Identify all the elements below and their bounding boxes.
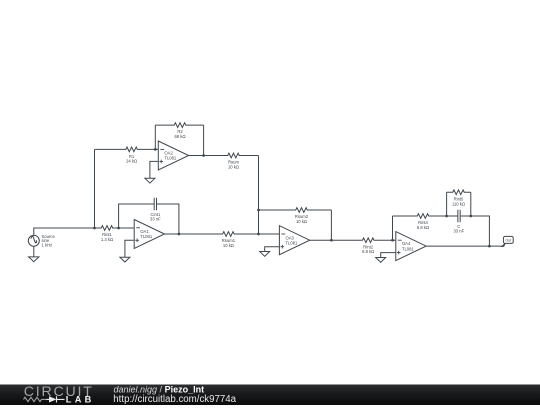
node Rint5 left [445, 215, 448, 218]
wire OA4 output run [426, 245, 502, 247]
svg-text:33 nF: 33 nF [150, 216, 161, 221]
svg-text:6.8 kΩ: 6.8 kΩ [417, 225, 429, 230]
voltage source V1 (Source sine 1 kHz) [28, 235, 39, 246]
wire Cint1 feedback right [157, 204, 179, 234]
node OA3 output junction [330, 239, 333, 242]
wire vertical branch up to R1 [94, 149, 96, 228]
svg-text:6.8 kΩ: 6.8 kΩ [362, 249, 374, 254]
svg-text:OA1: OA1 [140, 229, 149, 234]
ground below source [29, 257, 39, 262]
wire Rint5 left vertical [446, 192, 448, 216]
ground at OA3 [260, 252, 270, 257]
resistor R1 24k with wire [95, 147, 159, 152]
node input branch to R1 [93, 227, 96, 230]
resistor Rint2 6.8k on OA3 output run [310, 238, 396, 243]
logo zigzag [24, 397, 47, 401]
ground at OA1 [120, 257, 130, 262]
resistor Rint4 6.8k on feedback wire [393, 214, 458, 219]
svg-text:TL081: TL081 [402, 247, 415, 252]
capacitor Cint1 33nF [154, 198, 156, 210]
resistor Rsum1 10k on OA1 output run [165, 232, 280, 237]
resistor R2 68k on feedback wire [155, 123, 203, 128]
wire Rint5 right vertical [470, 192, 472, 216]
svg-text:TL081: TL081 [286, 241, 299, 246]
wire source bottom to ground [33, 246, 35, 257]
resistor Rint1 1.3k with input wire [95, 226, 135, 231]
resistor Rsum 10k on OA2 output run [189, 153, 259, 158]
capacitor C 33nF [458, 210, 460, 222]
node summing junction [257, 233, 260, 236]
wire OA2 feedback left vertical [154, 125, 156, 149]
svg-text:OA2: OA2 [164, 150, 173, 155]
node branch to Cint1 [117, 227, 120, 230]
wire OA4 feedback left vertical [392, 216, 394, 240]
node OA2 inverting input [154, 148, 157, 151]
resistor Rsum2 10k on feedback wire [259, 208, 332, 213]
ground at OA2 [145, 178, 155, 183]
svg-text:http://circuitlab.com/ck9774a: http://circuitlab.com/ck9774a [113, 394, 236, 405]
node OA1 output junction [178, 233, 181, 236]
svg-text:10 kΩ: 10 kΩ [223, 243, 234, 248]
wire OA1 noninverting to ground [125, 240, 134, 257]
op-amp OA4 TL081 [396, 232, 426, 261]
node OA4 inverting input [391, 239, 394, 242]
node Rint5 right [469, 215, 472, 218]
svg-text:1 kHz: 1 kHz [42, 243, 53, 248]
op-amp OA2 TL081 [158, 141, 188, 170]
node Rsum2 branch [257, 209, 260, 212]
node Out flag [503, 236, 513, 243]
svg-text:OA4: OA4 [402, 241, 411, 246]
node OA2 output junction [202, 154, 205, 157]
wire vertical down to summing node [258, 156, 260, 235]
ground at OA4 [376, 258, 386, 263]
svg-text:LAB: LAB [66, 395, 95, 405]
op-amp OA3 TL081 [279, 226, 309, 255]
wire Cint1 feedback left [119, 204, 155, 228]
svg-text:10 kΩ: 10 kΩ [228, 164, 239, 169]
svg-text:24 kΩ: 24 kΩ [126, 159, 137, 164]
wire OA2 noninverting to ground [150, 161, 158, 178]
svg-text:110 kΩ: 110 kΩ [452, 201, 465, 206]
wire Rsum2 feedback right vertical [330, 210, 332, 240]
op-amp OA1 TL081 [134, 220, 164, 249]
svg-text:68 kΩ: 68 kΩ [174, 134, 185, 139]
wire OA2 feedback right vertical [203, 125, 205, 155]
logo diode [47, 396, 65, 402]
wire OA3 noninverting to ground [265, 247, 280, 252]
svg-text:1.3 kΩ: 1.3 kΩ [101, 237, 113, 242]
node Out flag pointer [502, 243, 506, 247]
svg-text:10 kΩ: 10 kΩ [296, 219, 307, 224]
svg-text:TL081: TL081 [164, 156, 177, 161]
svg-text:33 nF: 33 nF [453, 228, 464, 233]
wire C right to output vertical [460, 216, 489, 246]
wire source top to input net [34, 228, 95, 235]
svg-text:Out: Out [505, 239, 511, 243]
svg-text:TL081: TL081 [140, 234, 153, 239]
wire OA4 noninverting to ground [381, 253, 396, 258]
svg-text:OA3: OA3 [286, 235, 295, 240]
resistor Rint5 110k on parallel loop [447, 190, 471, 195]
node output feedback junction [488, 245, 491, 248]
